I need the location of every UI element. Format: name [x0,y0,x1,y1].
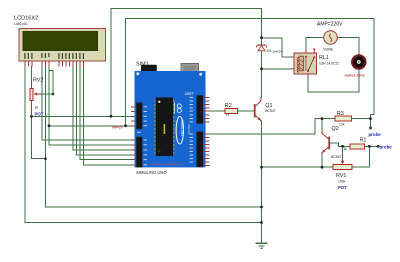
wire Q2 base to R1 [330,143,350,146]
junction R3 rail / Q2 collector [321,117,324,120]
usb connector [181,63,199,72]
Arduino right pin stubs [203,97,210,165]
SIMULINO oval [176,116,183,144]
wire Q1 emitter down to ground [261,121,263,243]
wire R3 right to probe node [352,118,371,120]
potentiometer RV2 [30,78,53,117]
wire diode bottom to coil-bottom branch [262,68,291,70]
left upper header [136,103,142,130]
svg-text:AMP=220V: AMP=220V [317,22,343,28]
wire 5V net from RV2 bottom to Arduino left pin [31,115,130,117]
coil pins [291,56,294,58]
svg-text:R3: R3 [337,111,344,117]
wire LCD VEE down to RV2 top [31,67,33,86]
svg-text:BC547: BC547 [331,155,341,159]
svg-text:SIMULINO: SIMULINO [180,120,184,136]
svg-text:R2: R2 [225,103,232,109]
relay RL1 G2R-14.DC12 [291,48,340,77]
wire LCD E down through Vin node to Arduino [49,67,131,145]
junction pot-ground line / RW ground line [44,157,47,160]
junction diode net / relay coil bottom branch [260,67,263,70]
coil [299,56,303,71]
wire LCD D5 to Arduino [77,67,131,155]
wire LCD RS to Arduino [42,67,131,141]
wire Arduino right pin to R2 [210,110,226,112]
junction bottom rail / Q1 emitter [260,166,263,169]
junction Q2 base / RV1 wiper [341,145,344,148]
diode D1 1N4007 [256,45,282,53]
wire diode to coil-top branch [262,38,291,57]
wire LCD RW down to ground rail [46,67,262,208]
svg-text:POT: POT [35,111,44,116]
wire relay common to motor bottom [308,69,359,92]
ground [256,243,268,248]
svg-text:LCD16X2: LCD16X2 [14,16,38,22]
svg-text:1N4007: 1N4007 [273,49,283,53]
wire bottom rail Q1 emitter to RV1 left [262,166,334,168]
motor 220v [345,55,366,77]
svg-text:RL1: RL1 [319,55,329,61]
LCD pin stubs [25,61,84,67]
svg-text:Q1: Q1 [265,103,272,109]
power jack [141,65,157,79]
wire LCD D6 to Arduino [80,67,131,160]
resistor R3 [335,111,352,126]
svg-text:SIMULINO UNO: SIMULINO UNO [136,170,167,175]
wire RV1 wiper up to base node [342,146,344,158]
switch pins on top [305,49,307,54]
svg-text:motor 220v: motor 220v [345,73,366,77]
potentiometer RV1 [333,159,352,190]
junction R1 right / RV1 loop [368,145,371,148]
wire LCD E jog to RV2 wiper [49,70,53,94]
LCD LM016L display body [19,28,106,60]
junction Vin wire / rail B riser [124,124,127,127]
svg-text:VSINE: VSINE [323,48,334,52]
svg-text:BC547: BC547 [265,109,275,113]
svg-text:Q2: Q2 [332,126,339,132]
wire rail B: up from Vin wire, across top, down far right to R3 rail [126,19,374,126]
wire probe 1 stub [370,119,372,127]
junction LCD E / Vin wire [48,124,51,127]
wire Q2 collector up to R3 rail [321,119,323,131]
svg-text:1k: 1k [226,112,230,116]
AC source VSINE AMP=220V [317,22,343,52]
voltage probe 2 [377,144,392,149]
svg-text:LM016L: LM016L [14,22,28,26]
svg-text:RV1: RV1 [336,173,346,179]
wire R1 node down to RV1 right [352,146,369,167]
svg-text:100k: 100k [338,179,346,183]
junction ground rail 2 / ground line [260,221,263,224]
wire rail A: up from 5V wire, across top, down to diode [111,9,262,117]
wire Arduino right pin to R3 rail [210,119,336,134]
wire LCD VSS to ground rail [25,67,262,223]
wire Vin net LCD-E to Arduino left pin [49,125,131,127]
svg-text:AREF: AREF [185,92,194,96]
wire VSINE right to motor top [337,38,359,56]
svg-text:Vin=2v: Vin=2v [112,125,123,129]
svg-text:probe: probe [369,132,382,137]
wire RV2 bottom to ground rail [31,116,45,158]
svg-text:1k: 1k [344,147,348,151]
junction diode net / relay coil top branch [260,36,263,39]
junction RV2 bottom / 5V wire [30,115,33,118]
svg-text:R1: R1 [360,137,367,143]
wire LCD D4 to Arduino [73,67,131,151]
junction RV2 wiper / LCD RW line [52,93,55,96]
Arduino left pin stubs [131,107,135,165]
junction bottom rail / Q2 emitter [321,166,324,169]
transistor Q1 BC547 [254,97,276,122]
common pin bottom [307,74,309,78]
resistor R1 [344,137,367,151]
junction R3 rail / probe 1 [369,117,372,120]
right upper header [197,95,204,123]
board [135,71,206,167]
svg-text:probe: probe [380,144,393,149]
wire R1 right to probe 2 [364,145,377,147]
tiny pin labels left headers [137,106,147,165]
wire LCD D7 to Arduino [84,67,131,165]
svg-text:D1: D1 [267,48,273,53]
svg-text:RV2: RV2 [33,78,43,84]
svg-text:www.simulino.blogspot.com: www.simulino.blogspot.com [150,162,185,166]
svg-text:G2R-14.DC12: G2R-14.DC12 [319,61,339,65]
switch blade [308,57,314,71]
ATmega chip [156,98,173,157]
arduino infinity logo [177,104,181,113]
transistor Q2 BC547 (mirrored) [322,126,341,159]
Arduino board SIM1 [131,62,210,175]
svg-text:10k: 10k [339,123,345,127]
right lower header [197,132,204,168]
LCD pin name marks [24,53,84,59]
wire diode line down to Q1 collector [261,51,263,97]
resistor R2 [225,103,238,117]
wire R2 to Q1 base [238,110,254,112]
junction ground rail 1 / ground line [260,206,263,209]
junction 5V wire / rail A riser [110,115,113,118]
voltage probe 1 [369,127,382,137]
screw holes [136,72,139,75]
wire Q2 emitter down to bottom rail [321,155,323,167]
svg-text:1k: 1k [35,106,39,110]
svg-text:POT: POT [338,185,347,190]
wire VSINE left to relay NO pin [306,38,324,49]
left lower header [136,137,142,168]
tiny pin labels right headers [190,97,193,163]
